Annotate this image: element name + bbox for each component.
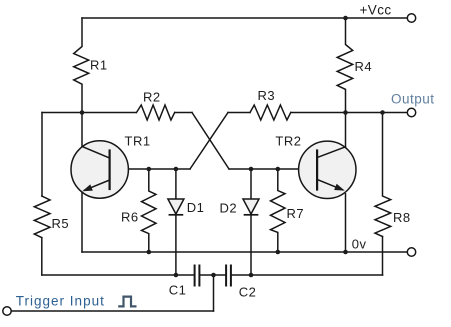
svg-text:R4: R4 (355, 59, 373, 74)
resistor R7 (271, 169, 286, 252)
wire TR1 collector rail to left (42, 112, 136, 114)
capacitor C2 (226, 266, 231, 286)
wire R5 bottom to capacitor line corner (41, 238, 43, 275)
resistor R5 (34, 196, 50, 238)
wire R3 left lead (228, 112, 250, 114)
node TR1 collector junction (80, 110, 85, 115)
wire 0v rail (82, 251, 407, 253)
wire TR2 collector lead (345, 113, 347, 147)
wire TR1 collector lead (81, 113, 83, 147)
svg-text:Trigger Input: Trigger Input (16, 294, 105, 309)
node trigger / C1-C2 junction (211, 273, 216, 278)
wire capacitor line right segment (232, 274, 383, 276)
svg-text:+Vcc: +Vcc (360, 3, 392, 18)
svg-text:R1: R1 (90, 58, 108, 73)
wire left rail down to R5 (41, 113, 43, 197)
resistor R4 (337, 18, 353, 113)
node output / R8 junction (380, 110, 385, 115)
svg-text:R8: R8 (393, 210, 411, 225)
svg-text:R6: R6 (121, 210, 139, 225)
svg-text:R2: R2 (143, 90, 161, 105)
terminal +Vcc (407, 14, 415, 22)
svg-text:R3: R3 (258, 88, 276, 103)
svg-text:TR2: TR2 (275, 134, 301, 149)
svg-text:C2: C2 (239, 285, 257, 300)
node D2 / capacitor line junction (249, 273, 254, 278)
wire R2 right lead (175, 112, 192, 114)
resistor R6 (142, 169, 157, 252)
svg-text:Output: Output (391, 92, 435, 107)
wire capacitor line left segment (42, 274, 194, 276)
node D1 / TR1 base junction (174, 167, 179, 172)
diode D1 (168, 169, 184, 275)
terminal Trigger Input (3, 307, 11, 315)
resistor R2 (137, 105, 175, 120)
wire R3 to TR1 base (diagonal) (190, 113, 228, 170)
node R6 / TR1 base junction (147, 167, 152, 172)
terminal Output (407, 108, 415, 116)
resistor R3 (250, 105, 291, 120)
svg-text:0v: 0v (352, 237, 367, 252)
wire trigger input line (11, 310, 213, 312)
node R7 / TR2 base junction (276, 167, 281, 172)
node +Vcc / R4 junction (343, 16, 348, 21)
transistor TR2 (299, 141, 356, 198)
node R7 / 0v junction (276, 250, 281, 255)
node D1 / capacitor line junction (174, 273, 179, 278)
node D2 / TR2 base junction (249, 167, 254, 172)
svg-text:D2: D2 (220, 201, 238, 216)
svg-text:TR1: TR1 (125, 134, 151, 149)
svg-text:R5: R5 (52, 216, 70, 231)
node TR2 emitter / 0v junction (343, 250, 348, 255)
transistor TR1 (71, 141, 128, 198)
wire trigger up to C1-C2 node (213, 275, 215, 311)
wire output rail (291, 112, 408, 114)
capacitor C1 (195, 266, 200, 286)
wire TR1 emitter lead down (81, 192, 83, 252)
wire R8 bottom corner up (382, 237, 384, 276)
svg-text:C1: C1 (169, 283, 187, 298)
diode D2 (243, 169, 259, 275)
wire top +Vcc rail (82, 17, 407, 19)
node R6 / 0v junction (147, 250, 152, 255)
node TR2 collector junction (343, 110, 348, 115)
resistor R8 (375, 113, 391, 237)
wire TR1 base line (110, 168, 190, 170)
wire TR2 base line (229, 168, 317, 170)
wire TR2 emitter lead down (345, 194, 347, 252)
wire R2 to TR2 base (diagonal) (192, 113, 229, 170)
svg-text:R7: R7 (287, 206, 305, 221)
svg-text:D1: D1 (187, 200, 205, 215)
resistor R1 (74, 18, 89, 113)
terminal 0v (407, 248, 415, 256)
wire capacitor line middle segment (200, 274, 225, 276)
trigger pulse icon (118, 297, 136, 307)
